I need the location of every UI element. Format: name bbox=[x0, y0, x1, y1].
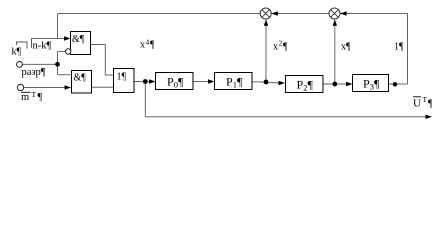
wire output drop from node before P0 bbox=[144, 82, 146, 117]
arrowhead up into XOR1 from tap bbox=[264, 19, 268, 26]
svg-text:n-k¶: n-k¶ bbox=[33, 41, 52, 52]
OR gate box bbox=[114, 69, 135, 93]
svg-text:¶: ¶ bbox=[428, 99, 433, 110]
arrowhead up into XOR2 from tap bbox=[333, 19, 337, 26]
wire n-k overline merging into drop bbox=[32, 38, 58, 40]
wire P1 to P2 bbox=[252, 82, 280, 83]
arrowhead into P3 bbox=[346, 82, 353, 86]
arrowhead output UT bbox=[426, 115, 433, 119]
wire left drop from top line to AND1 input bbox=[57, 14, 59, 39]
node dot after P3 bbox=[393, 82, 397, 86]
arrowhead into P2 bbox=[279, 81, 286, 85]
AND gate DD1 box bbox=[71, 32, 91, 55]
bracket over k label bbox=[17, 42, 28, 49]
wire razr vertical through junction bbox=[57, 52, 59, 75]
svg-text:1¶: 1¶ bbox=[394, 42, 404, 53]
wire tap up from node after P1 to XOR1 bbox=[265, 25, 267, 82]
arrowhead into XOR1 from right bbox=[271, 11, 278, 15]
arrowhead into P1 bbox=[208, 79, 215, 83]
svg-text:x¶: x¶ bbox=[341, 42, 351, 53]
arrowhead into AND1 top input bbox=[64, 36, 71, 40]
register P2 box bbox=[286, 76, 324, 93]
svg-text:4: 4 bbox=[146, 38, 150, 47]
AND gate DD1 inversion bubble bbox=[66, 49, 71, 54]
wire top feedback segment XOR2-right riser bbox=[340, 13, 408, 15]
wire right riser from P3 output to top line bbox=[407, 14, 409, 85]
XOR adder 2 circle bbox=[329, 8, 340, 19]
svg-text:T: T bbox=[423, 95, 428, 104]
svg-text:¶: ¶ bbox=[150, 40, 155, 51]
wire P0 to P1 bbox=[193, 81, 209, 83]
wire top feedback line segment left of XOR1 bbox=[58, 13, 261, 15]
wire tap up from node after P2 to XOR2 bbox=[334, 25, 336, 84]
tick left of n-k label bbox=[31, 39, 33, 49]
wire AND1 output to OR gate input1 bbox=[91, 45, 114, 76]
wire bottom output line bbox=[145, 116, 426, 118]
node dot after P2 bbox=[332, 82, 337, 87]
svg-text:&¶: &¶ bbox=[72, 34, 85, 45]
wire AND1 bubble input feed bbox=[58, 51, 66, 53]
svg-text:разр¶: разр¶ bbox=[22, 67, 46, 78]
node dot after P1 bbox=[264, 80, 269, 85]
register P3 box bbox=[353, 75, 389, 92]
wire P3 output to right riser bbox=[389, 83, 408, 85]
wire razr line from input circle bbox=[22, 63, 57, 65]
svg-text:m: m bbox=[21, 92, 29, 103]
register P1 box bbox=[215, 73, 253, 90]
wire AND2 output to OR gate input2 bbox=[92, 86, 114, 88]
svg-text:U: U bbox=[413, 98, 421, 110]
arrowhead into XOR2 from right bbox=[340, 11, 347, 15]
wire mT line from input circle bbox=[22, 87, 65, 89]
node dot before P0 bbox=[143, 79, 148, 84]
svg-text:¶: ¶ bbox=[38, 92, 43, 103]
input circle mT bbox=[17, 84, 23, 90]
wire AND1 top input with arrow bbox=[58, 38, 65, 40]
register P0 box bbox=[156, 73, 194, 90]
wire top feedback segment XOR1-XOR2 bbox=[271, 13, 329, 15]
arrowhead into P0 bbox=[149, 79, 156, 83]
XOR adder 1 circle bbox=[260, 8, 271, 19]
svg-text:k¶: k¶ bbox=[12, 47, 22, 58]
node dot razr junction bbox=[55, 62, 60, 67]
wire razr to AND2 input1 bbox=[58, 74, 72, 76]
wire OR output to P0 bbox=[134, 81, 150, 83]
AND gate DD2 box bbox=[72, 71, 92, 94]
input circle razr bbox=[17, 62, 23, 68]
arrowhead into AND2 input2 from mT bbox=[65, 85, 72, 89]
svg-text:¶: ¶ bbox=[283, 42, 288, 53]
svg-text:&¶: &¶ bbox=[74, 73, 87, 84]
svg-text:T: T bbox=[32, 90, 37, 99]
svg-text:2: 2 bbox=[279, 39, 283, 48]
svg-text:x: x bbox=[273, 42, 278, 53]
svg-text:x: x bbox=[140, 40, 145, 51]
svg-text:1¶: 1¶ bbox=[117, 72, 127, 83]
wire P2 to P3 bbox=[323, 83, 347, 85]
